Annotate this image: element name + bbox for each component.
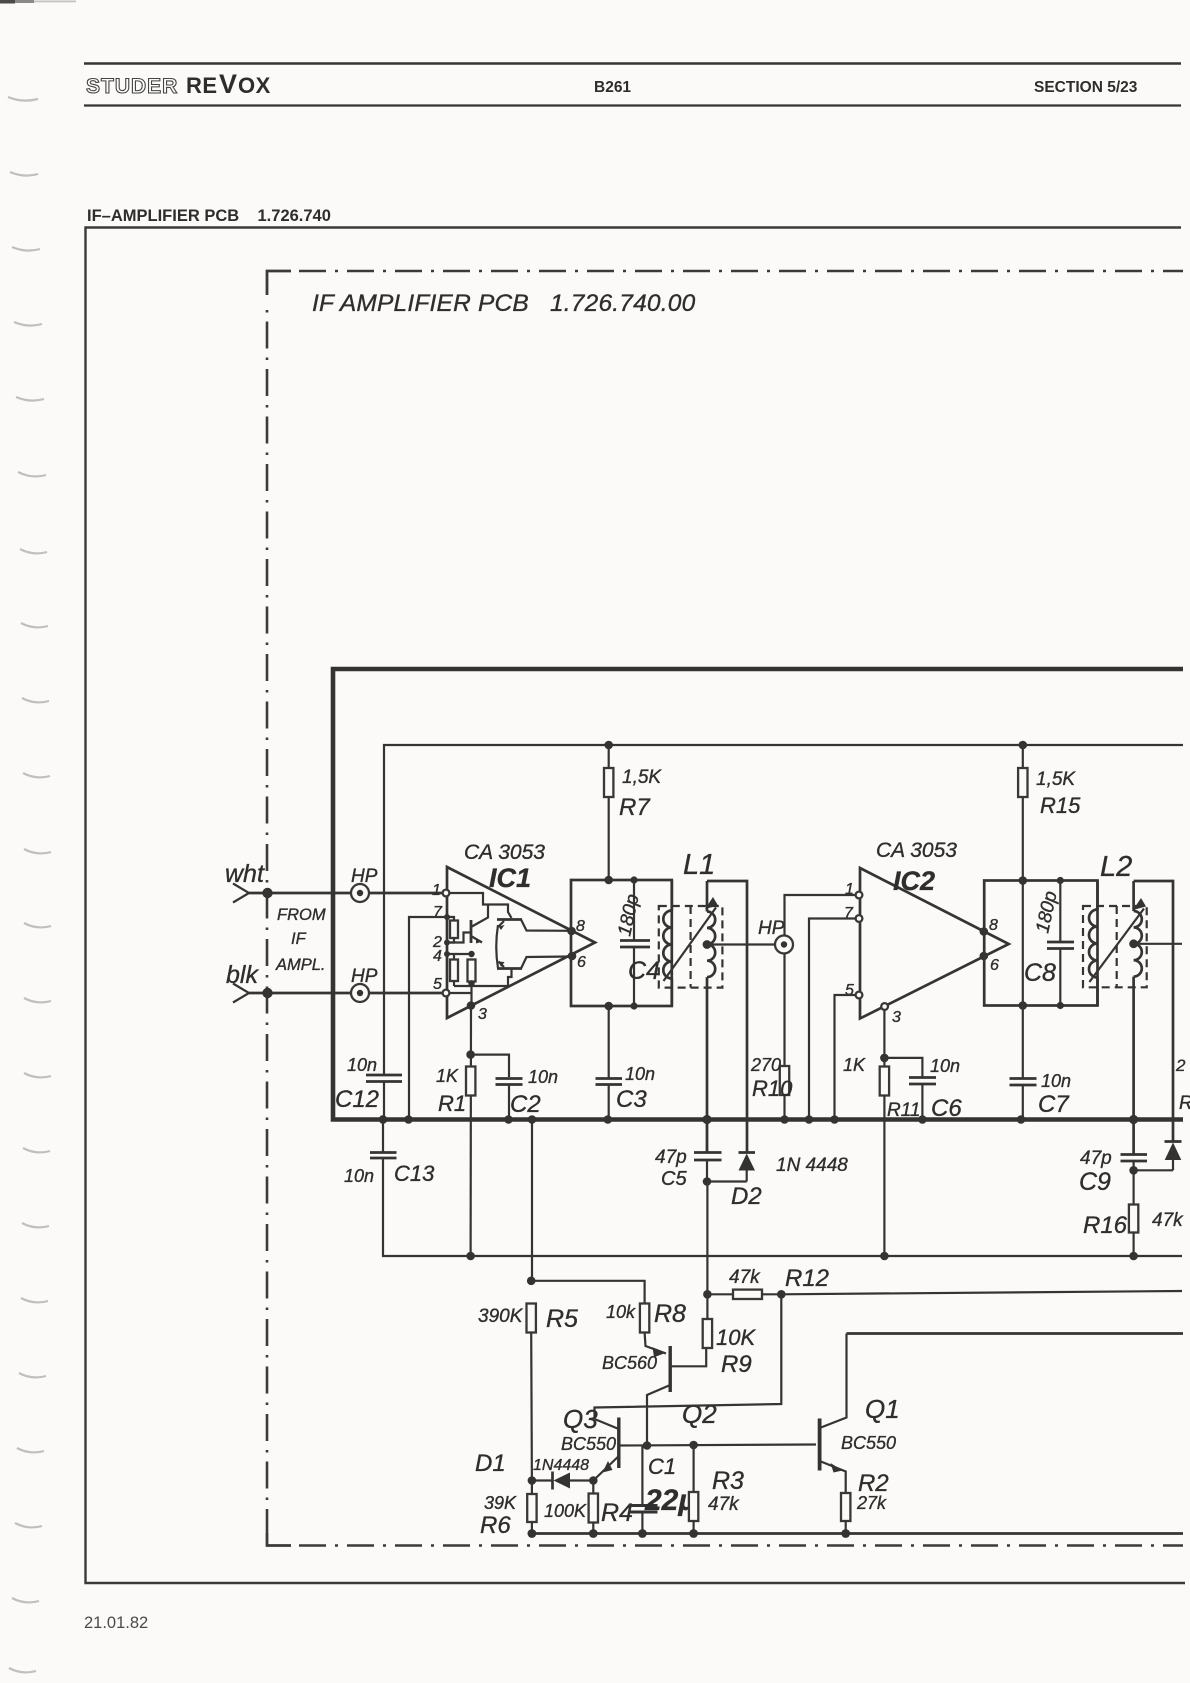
wht input arrow <box>233 884 249 903</box>
wire L2 tap to page edge <box>1134 943 1182 945</box>
capacitor C5 <box>694 1120 722 1182</box>
svg-text:180p: 180p <box>1032 889 1061 935</box>
svg-text:C1: C1 <box>648 1454 676 1479</box>
junction R3 ground <box>689 1529 698 1538</box>
op-amp IC2 triangle <box>860 868 1009 1019</box>
junction pin7 ground <box>805 1115 814 1124</box>
svg-text:R5: R5 <box>546 1305 578 1333</box>
L2 secondary tap junction <box>1129 939 1138 948</box>
wire R12 node to page edge <box>781 1291 1182 1294</box>
IC1 internal emitter arc <box>496 925 498 968</box>
IC1 internal resistor Rc <box>468 960 476 1006</box>
IC2 pin7 <box>844 905 862 922</box>
test point HP1 <box>351 884 369 902</box>
svg-text:R7: R7 <box>619 794 651 821</box>
junction Rc bottom <box>468 980 474 986</box>
svg-text:1K: 1K <box>436 1066 459 1086</box>
resistor R9 <box>703 1294 712 1348</box>
svg-text:CA 3053: CA 3053 <box>876 839 957 862</box>
IC2 pin3 <box>881 1003 901 1026</box>
wire C9 D3 join <box>1134 1169 1173 1171</box>
IC1 internal transistor T1 <box>497 920 571 931</box>
Q1 emitter arrow <box>831 1463 843 1473</box>
resistor R8 <box>640 1304 666 1354</box>
capacitor C7 wire <box>1010 1006 1037 1120</box>
junction R1 feedback node <box>466 1252 475 1261</box>
svg-text:R15: R15 <box>1040 793 1081 818</box>
svg-text:10n: 10n <box>528 1067 558 1087</box>
test point HP2 <box>351 984 369 1002</box>
junction rail at R5 wire <box>528 1115 537 1124</box>
svg-text:BC560: BC560 <box>602 1353 657 1373</box>
junction C4 top <box>630 876 637 883</box>
wire pin3 node to C2 <box>471 1055 509 1077</box>
resistor R6 <box>527 1481 536 1534</box>
svg-text:IC2: IC2 <box>893 866 935 896</box>
wire R15 line through box <box>1022 881 1024 1006</box>
svg-text:SECTION 5/23: SECTION 5/23 <box>1034 79 1138 96</box>
L1 core dashed box <box>659 906 723 988</box>
resistor R7 <box>604 745 613 881</box>
svg-text:C12: C12 <box>335 1086 379 1113</box>
junction R16 bottom <box>1129 1252 1138 1261</box>
svg-text:V: V <box>219 69 237 99</box>
L1 secondary tap junction <box>703 940 712 949</box>
resistor R2 <box>841 1493 850 1534</box>
wire HP3 down to R10 <box>783 954 785 1067</box>
inductor L2 secondary winding <box>1134 881 1142 1154</box>
svg-text:R16: R16 <box>1083 1212 1128 1239</box>
PCB dash-dot outline top-left corner <box>267 271 291 295</box>
svg-text:1N 4448: 1N 4448 <box>776 1155 848 1176</box>
svg-text:R8: R8 <box>654 1300 686 1328</box>
svg-text:1: 1 <box>845 881 854 898</box>
svg-text:B261: B261 <box>594 79 631 96</box>
svg-text:STUDER: STUDER <box>86 75 178 98</box>
svg-text:10n: 10n <box>344 1166 374 1186</box>
resistor R1 <box>466 1067 475 1096</box>
svg-text:C2: C2 <box>510 1091 541 1118</box>
junction Q2 collector to Q3 base <box>643 1441 652 1450</box>
blk input arrow <box>233 984 249 1003</box>
svg-text:1,5K: 1,5K <box>1036 769 1076 790</box>
svg-text:C8: C8 <box>1024 959 1056 987</box>
junction IC1 pin7 ground <box>404 1115 413 1124</box>
svg-text:C9: C9 <box>1079 1168 1111 1196</box>
svg-text:270: 270 <box>750 1055 781 1075</box>
junction R15 line top of box <box>1019 876 1028 885</box>
svg-text:21.01.82: 21.01.82 <box>84 1614 148 1632</box>
svg-text:D2: D2 <box>731 1183 762 1210</box>
IC1 pin2 <box>432 934 450 951</box>
junction C12 ground <box>379 1115 388 1124</box>
PCB outline bottom edge <box>299 1544 1183 1547</box>
capacitor C9 <box>1121 1155 1148 1171</box>
junction pin3 node <box>880 1054 889 1063</box>
svg-text:1N4448: 1N4448 <box>533 1457 589 1474</box>
junction R7 line bottom of box <box>604 1002 613 1011</box>
capacitor C3 <box>596 1006 623 1120</box>
svg-text:8: 8 <box>989 917 998 934</box>
svg-text:BC550: BC550 <box>561 1434 616 1454</box>
svg-text:10n: 10n <box>625 1064 655 1084</box>
junction R15 line bottom of box <box>1019 1001 1028 1010</box>
svg-text:FROM: FROM <box>277 906 326 924</box>
filter can box C8 <box>984 881 1097 1006</box>
svg-text:R12: R12 <box>785 1265 829 1292</box>
svg-text:1K: 1K <box>843 1055 866 1075</box>
capacitor C1 <box>629 1446 658 1534</box>
IC1 pin4 <box>433 948 450 965</box>
wire IC2 pin5 to ground <box>835 995 856 1120</box>
ground return wire <box>528 1532 1183 1535</box>
wire R5 node to R8 <box>531 1281 644 1303</box>
outer frame box <box>86 228 1186 1584</box>
svg-text:3: 3 <box>892 1009 901 1026</box>
svg-text:R11: R11 <box>887 1100 920 1121</box>
resistor R4 100K <box>589 1481 598 1534</box>
svg-text:Q3: Q3 <box>563 1404 598 1434</box>
junction R3 top <box>689 1441 698 1450</box>
svg-text:L2: L2 <box>1100 851 1132 883</box>
junction C6 ground <box>918 1115 927 1124</box>
wire IC2 pin3 down <box>883 1010 885 1067</box>
wire HP3 up to IC2 pin1 <box>785 895 857 936</box>
junction R15 top <box>1019 741 1028 750</box>
IC1 internal wire pin4 <box>447 953 472 955</box>
PCB outline top edge <box>299 270 1183 273</box>
capacitor C8 <box>1047 881 1074 1006</box>
IC1 internal resistor Rb <box>450 954 458 986</box>
junction R11 feedback node <box>880 1252 889 1261</box>
PCB outline left edge <box>266 310 269 1533</box>
junction C3 ground <box>604 1115 613 1124</box>
junction R12 right node <box>777 1290 786 1299</box>
svg-text:OX: OX <box>238 73 271 98</box>
wire detector node down <box>706 1182 708 1295</box>
inductor L1 primary winding <box>663 880 672 1006</box>
svg-text:BC550: BC550 <box>841 1433 896 1453</box>
svg-text:blk: blk <box>226 961 259 989</box>
junction C5/D2 node <box>703 1177 712 1186</box>
svg-text:R6: R6 <box>480 1512 511 1539</box>
svg-text:7: 7 <box>433 904 443 921</box>
inductor L1 secondary winding <box>707 881 715 1153</box>
svg-text:1: 1 <box>432 882 441 899</box>
svg-text:47k: 47k <box>708 1494 740 1515</box>
svg-text:R10: R10 <box>752 1076 793 1101</box>
wire IC2 pin7 to ground <box>809 919 856 1120</box>
transistor Q2 emitter arrow <box>653 1347 667 1357</box>
capacitor C4 <box>620 880 650 1006</box>
svg-text:D1: D1 <box>475 1450 506 1477</box>
svg-text:C7: C7 <box>1038 1091 1070 1118</box>
transistor Q1 <box>820 1334 847 1494</box>
svg-text:C3: C3 <box>616 1086 647 1113</box>
svg-text:IF: IF <box>291 930 307 948</box>
svg-text:4: 4 <box>433 948 442 965</box>
wire pin3 node to C6 <box>884 1058 922 1077</box>
diode D3 <box>1165 1142 1182 1171</box>
svg-text:R3: R3 <box>712 1467 744 1495</box>
svg-text:180p: 180p <box>614 892 643 938</box>
svg-text:10k: 10k <box>606 1302 636 1322</box>
junction C8 top <box>1057 877 1064 884</box>
svg-text:47p: 47p <box>655 1147 687 1168</box>
svg-text:IF–AMPLIFIER PCB 1.726.740: IF–AMPLIFIER PCB 1.726.740 <box>87 207 331 225</box>
svg-text:CA 3053: CA 3053 <box>464 841 545 864</box>
svg-text:RE: RE <box>186 73 218 98</box>
junction D1 right / Q3 emitter <box>589 1476 598 1485</box>
resistor R3 <box>689 1445 698 1534</box>
Q3 emitter arrow <box>603 1461 613 1473</box>
junction R7 line top of box <box>604 876 613 885</box>
junction R7 top <box>604 741 613 750</box>
logo REVOX <box>186 69 271 99</box>
IF section thick box <box>333 669 1183 1120</box>
IC1 internal resistor Ra <box>447 917 458 943</box>
IC1 internal lower staircase <box>454 969 512 987</box>
wire blk to IC1 pin5 <box>249 992 443 995</box>
transistor Q2 <box>647 1346 706 1446</box>
inductor L2 primary winding <box>1089 881 1098 1006</box>
junction pin5 ground <box>830 1115 839 1124</box>
IC1 internal transistor T2 <box>497 957 572 969</box>
wire L1 tap to HP3 <box>707 943 775 945</box>
IC1 pin8 <box>567 918 585 935</box>
junction C7 ground <box>1017 1115 1026 1124</box>
junction C4 bottom <box>630 1002 637 1009</box>
resistor R15 <box>1018 745 1027 881</box>
L1 top edge to right leg <box>707 881 747 1153</box>
junction C8 bottom <box>1057 1002 1064 1009</box>
margin binder marks <box>8 97 51 1672</box>
capacitor C13 <box>370 1120 1182 1257</box>
top supply rail <box>384 745 1183 1075</box>
junction wht at PCB edge <box>262 888 272 898</box>
svg-text:C6: C6 <box>931 1095 962 1122</box>
op-amp IC1 triangle <box>447 867 595 1018</box>
svg-text:R1: R1 <box>438 1091 466 1116</box>
resistor R10 <box>780 1066 789 1120</box>
test point HP3 <box>775 936 793 954</box>
svg-text:47k: 47k <box>1152 1210 1184 1231</box>
IC1 internal transistor T3 <box>471 905 488 944</box>
svg-text:47p: 47p <box>1080 1148 1112 1169</box>
junction C2 ground <box>504 1115 513 1124</box>
IC2 pin8 <box>980 917 999 936</box>
svg-text:IF AMPLIFIER PCB 1.726.740.0: IF AMPLIFIER PCB 1.726.740.00 <box>312 290 696 317</box>
wire IC1 pin7 to ground <box>409 917 447 1120</box>
svg-text:10n: 10n <box>930 1056 960 1076</box>
svg-text:Q2: Q2 <box>682 1399 717 1429</box>
PCB outline bottom-left corner <box>267 1533 291 1546</box>
junction R2 ground <box>841 1529 850 1538</box>
svg-text:3: 3 <box>478 1006 487 1023</box>
svg-text:L1: L1 <box>683 849 715 881</box>
resistor R11 <box>880 1067 889 1257</box>
svg-text:100K: 100K <box>544 1501 587 1521</box>
L2 core dashed box <box>1083 906 1147 987</box>
svg-text:R: R <box>1179 1093 1190 1114</box>
IC1 internal wire pin5 stub <box>447 992 472 994</box>
junction C1 ground <box>638 1529 647 1538</box>
transistor Q3 <box>593 1418 816 1481</box>
svg-text:6: 6 <box>990 957 999 974</box>
junction R5 top node <box>527 1277 536 1286</box>
junction C9/D3 node <box>1129 1166 1138 1175</box>
junction Rc top <box>468 951 474 957</box>
scan smudge top-left <box>0 0 76 4</box>
svg-text:10K: 10K <box>716 1325 756 1350</box>
junction D1 left <box>528 1476 537 1485</box>
L2 tuning arrow <box>1089 898 1146 982</box>
svg-text:C13: C13 <box>394 1161 435 1186</box>
junction R6 ground <box>528 1529 537 1538</box>
capacitor C2 <box>496 1079 523 1120</box>
header bottom rule <box>84 104 1181 106</box>
svg-text:39K: 39K <box>484 1493 517 1513</box>
wire ground rail to R5 node <box>531 1120 533 1281</box>
svg-text:IC1: IC1 <box>489 863 531 893</box>
lower section box <box>847 1332 1184 1335</box>
IC2 pin1 <box>845 881 862 898</box>
IC2 pin6 <box>980 952 1000 974</box>
svg-text:27k: 27k <box>856 1493 887 1513</box>
svg-text:6: 6 <box>577 954 586 971</box>
svg-text:1,5K: 1,5K <box>622 767 662 788</box>
resistor R12 <box>707 1290 781 1299</box>
svg-text:47k: 47k <box>729 1267 761 1288</box>
svg-text:C4: C4 <box>628 957 660 985</box>
svg-text:wht: wht <box>225 860 265 888</box>
wire wht to IC1 pin1 <box>249 892 443 895</box>
wire IC1 pin3 down <box>470 1006 473 1257</box>
filter can box C4 <box>571 880 672 1006</box>
IC1 pin3 <box>467 1001 487 1023</box>
IC1 pin6 <box>568 952 586 971</box>
svg-text:R9: R9 <box>721 1351 752 1378</box>
junction R4 ground <box>589 1529 598 1538</box>
IC1 internal staircase wire pin1 <box>447 893 512 918</box>
junction pin3 node <box>466 1050 475 1059</box>
svg-text:5: 5 <box>433 976 442 993</box>
IC1 pin7 <box>433 904 450 921</box>
capacitor C12 <box>366 1075 402 1120</box>
junction C9 ground rail <box>1129 1115 1138 1124</box>
svg-text:10n: 10n <box>1041 1071 1071 1091</box>
junction blk at PCB edge <box>262 988 272 998</box>
L2 top edge to right leg <box>1134 881 1173 1142</box>
header top rule <box>84 62 1181 65</box>
svg-text:5: 5 <box>845 982 854 999</box>
label FROM IF AMPL <box>275 906 326 974</box>
svg-text:390K: 390K <box>478 1306 524 1327</box>
resistor R16 <box>1129 1170 1138 1256</box>
diode D2 <box>739 1153 756 1182</box>
svg-text:Q1: Q1 <box>865 1394 900 1424</box>
junction C5 ground rail <box>702 1115 711 1124</box>
junction R9/R12 node <box>703 1290 712 1299</box>
wire C5 D2 join <box>707 1180 747 1182</box>
capacitor C6 <box>909 1078 936 1120</box>
svg-text:10n: 10n <box>347 1055 377 1075</box>
IC1 pin5 <box>433 976 449 996</box>
wire R12 node down to Q3 collector line <box>595 1294 782 1419</box>
IC1 pin1 <box>432 882 449 899</box>
diode D1 <box>532 1472 593 1490</box>
svg-text:8: 8 <box>576 918 585 935</box>
svg-text:AMPL.: AMPL. <box>275 956 326 974</box>
L1 tuning arrow <box>664 897 719 981</box>
IC1 internal wire pin2 to T3 base <box>447 933 471 943</box>
IC2 pin5 <box>845 982 862 999</box>
resistor R5 <box>527 1304 536 1481</box>
svg-text:R4: R4 <box>601 1499 633 1527</box>
svg-text:2: 2 <box>1175 1056 1186 1075</box>
junction R10 ground <box>780 1115 789 1124</box>
svg-text:C5: C5 <box>661 1168 687 1190</box>
